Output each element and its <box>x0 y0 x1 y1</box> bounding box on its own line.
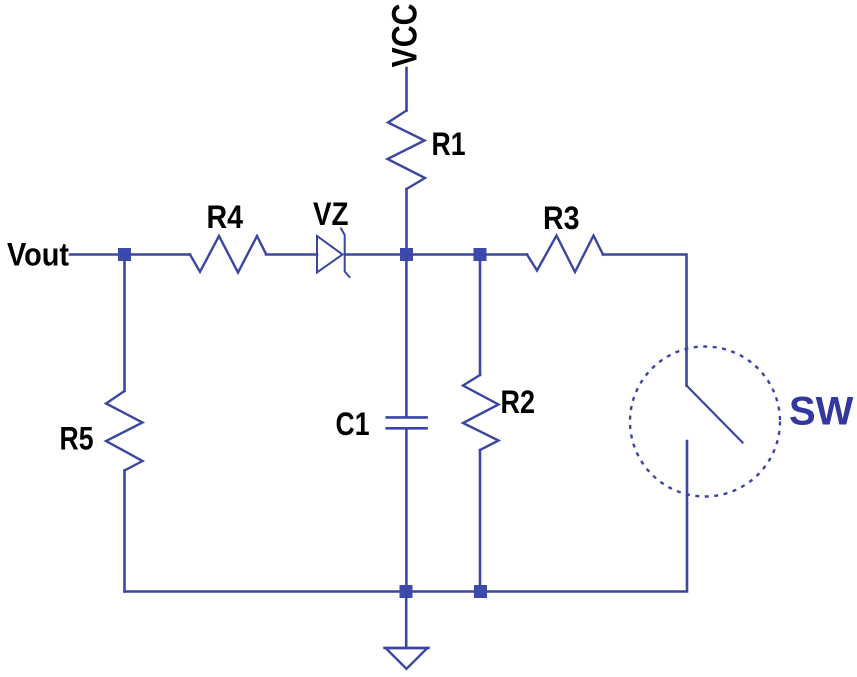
resistor R4 <box>190 236 266 273</box>
wire node B to R2 <box>479 255 482 376</box>
wire center node to C1 <box>405 255 408 418</box>
wire R3 to switch top <box>603 255 687 386</box>
center node junction <box>400 248 413 261</box>
svg-text:SW: SW <box>789 390 854 434</box>
node VCC label <box>386 4 425 68</box>
svg-text:VCC: VCC <box>386 4 425 68</box>
resistor R3 <box>527 236 603 273</box>
node B junction <box>474 248 487 261</box>
svg-text:VZ: VZ <box>313 196 349 232</box>
svg-text:C1: C1 <box>336 406 370 442</box>
capacitor C1 <box>387 417 427 428</box>
resistor R5 <box>106 391 143 471</box>
wire R5 to ground rail <box>123 471 126 592</box>
svg-text:R3: R3 <box>543 200 580 236</box>
wire node A to R5 <box>123 255 126 392</box>
wire center node to node B <box>407 253 481 256</box>
wire Vout to node A <box>70 253 125 256</box>
svg-text:R1: R1 <box>432 126 466 162</box>
svg-text:Vout: Vout <box>7 237 69 273</box>
resistor R1 <box>388 111 426 190</box>
wire VZ to center node <box>345 253 407 256</box>
wire R2 to bottom node B2 <box>479 450 482 592</box>
svg-text:R5: R5 <box>60 421 94 457</box>
zener diode VZ <box>317 229 350 278</box>
ground <box>385 648 429 669</box>
wire switch bottom to ground rail <box>125 441 688 592</box>
wire bottom node to ground symbol <box>405 592 408 649</box>
node A junction <box>118 248 131 261</box>
wire node B to R3 <box>480 253 527 256</box>
svg-text:R2: R2 <box>501 384 536 420</box>
wire VCC to R1 <box>405 68 408 111</box>
bottom node under R2 junction <box>474 585 487 598</box>
wire R4 to VZ <box>266 253 317 256</box>
wire C1 to bottom node <box>405 428 408 591</box>
wire node A to R4 <box>125 253 191 256</box>
bottom node under C1 junction <box>400 585 413 598</box>
switch SW <box>630 347 780 497</box>
wire R1 to center node <box>405 189 408 255</box>
resistor R2 <box>463 375 499 450</box>
svg-text:R4: R4 <box>207 199 244 235</box>
